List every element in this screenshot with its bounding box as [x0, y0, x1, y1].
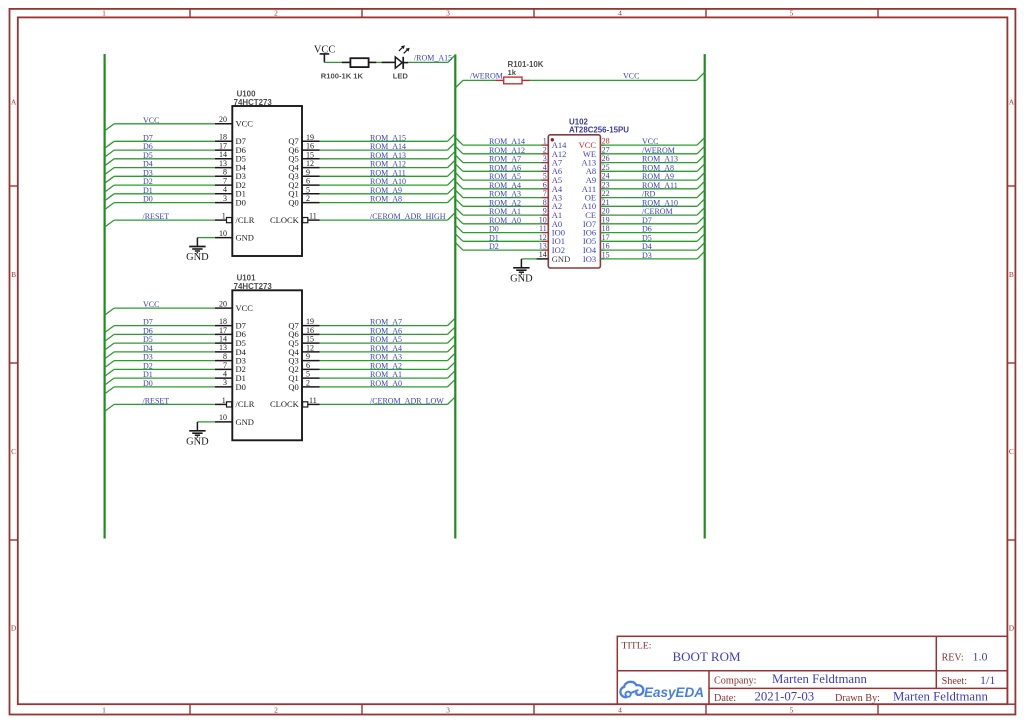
net label /WEROM (U102 right): [642, 146, 675, 155]
right border zone ticks: [1007, 186, 1015, 540]
wire D0 to U101: [105, 387, 215, 394]
label LED: [393, 71, 409, 80]
svg-text:VCC: VCC: [236, 303, 254, 313]
LED LED1: [382, 45, 410, 69]
svg-text:ROM_A10: ROM_A10: [370, 177, 406, 186]
svg-text:20: 20: [219, 115, 227, 124]
wire U102 pin 20 to right bus: [600, 208, 704, 216]
svg-text:5: 5: [306, 185, 310, 194]
date label Date:: [714, 693, 736, 704]
svg-text:ROM_A0: ROM_A0: [370, 379, 402, 388]
U101 pin 5 Q1: [288, 370, 319, 383]
sheet value 1/1: [980, 673, 995, 687]
wire R101 to right bus: [530, 72, 705, 80]
svg-text:13: 13: [219, 159, 227, 168]
top border zone ticks: [190, 9, 878, 17]
label U102: [569, 118, 588, 127]
net label D1 (U101): [143, 370, 153, 379]
U101 pin 13 D4: [215, 343, 247, 357]
svg-text:ROM_A0: ROM_A0: [489, 216, 521, 225]
svg-text:GND: GND: [510, 274, 533, 285]
wire D2 to U102 pin 13: [455, 243, 542, 251]
U102 pin 23 A11: [582, 180, 610, 193]
wire Q5 to middle bus (U101): [320, 336, 456, 344]
wire Q0 to middle bus (U101): [320, 379, 456, 387]
svg-text:GND: GND: [552, 254, 570, 264]
svg-text:ROM_A6: ROM_A6: [370, 326, 402, 335]
svg-text:26: 26: [602, 154, 610, 163]
svg-text:D1: D1: [143, 370, 153, 379]
svg-text:3: 3: [446, 9, 450, 18]
wire ROM_A12 to U102 pin 2: [455, 146, 542, 154]
svg-text:D0: D0: [143, 379, 153, 388]
svg-text:D0: D0: [236, 198, 246, 208]
svg-text:Date:: Date:: [714, 693, 736, 704]
svg-text:D3: D3: [642, 251, 652, 260]
svg-text:ROM_A4: ROM_A4: [370, 344, 402, 353]
net label VCC (U100): [143, 116, 159, 125]
net label D2 (U102): [489, 242, 499, 251]
svg-text:ROM_A8: ROM_A8: [370, 195, 402, 204]
svg-text:D0: D0: [143, 195, 153, 204]
svg-text:BOOT ROM: BOOT ROM: [673, 649, 741, 664]
svg-text:VCC: VCC: [642, 137, 658, 146]
svg-text:1: 1: [543, 137, 547, 146]
svg-text:D6: D6: [642, 225, 652, 234]
net label ROM_A7 (U102): [489, 155, 521, 164]
net label ROM_A12: [370, 160, 406, 169]
svg-text:6: 6: [306, 177, 310, 186]
net label ROM_A2: [370, 361, 402, 370]
svg-text:D1: D1: [489, 233, 499, 242]
wire Q7 to middle bus (U100): [320, 134, 456, 142]
svg-text:2: 2: [306, 194, 310, 203]
svg-text:9: 9: [306, 352, 310, 361]
net label ROM_A1 (U102): [489, 207, 521, 216]
net label D4 (U101): [143, 344, 153, 353]
net label ROM_A4: [370, 344, 402, 353]
net label D0 (U102): [489, 225, 499, 234]
U100 pin 10 GND: [215, 229, 254, 243]
U102 pin 26 A13: [581, 154, 609, 167]
svg-text:/ROM_A15: /ROM_A15: [414, 53, 452, 62]
net label ROM_A13 (U102 right): [642, 155, 678, 164]
net label ROM_A5: [370, 335, 402, 344]
svg-text:15: 15: [602, 251, 610, 260]
rev value 1.0: [973, 650, 988, 664]
EasyEDA logo: [620, 682, 704, 700]
svg-text:9: 9: [543, 207, 547, 216]
wire U102 pin 21 to right bus: [600, 199, 704, 207]
svg-text:1: 1: [222, 212, 226, 221]
svg-text:3: 3: [543, 154, 547, 163]
svg-text:1: 1: [102, 706, 106, 715]
svg-text:ROM_A11: ROM_A11: [642, 181, 678, 190]
ground symbol (U102): [510, 259, 533, 285]
U101 pin 6 Q2: [288, 361, 319, 374]
net label ROM_A3 (U102): [489, 190, 521, 199]
net label ROM_A6: [370, 326, 402, 335]
svg-text:11: 11: [309, 212, 317, 221]
label 74HCT273 (U101): [234, 282, 273, 291]
label 74HCT273 (U100): [234, 98, 273, 107]
net label D3 (U101): [143, 353, 153, 362]
svg-text:Sheet:: Sheet:: [942, 676, 967, 687]
svg-text:D6: D6: [143, 326, 153, 335]
svg-text:D3: D3: [143, 353, 153, 362]
wire U102 pin 24 to right bus: [600, 173, 704, 181]
U100 pin 9 Q3: [288, 168, 319, 181]
net label D7 (U100): [143, 133, 153, 142]
company value Marten Feldtmann: [772, 672, 867, 686]
svg-text:27: 27: [602, 145, 610, 154]
wire Q5 to middle bus (U100): [320, 151, 456, 159]
bottom border zone ticks: [190, 704, 878, 714]
svg-text:IO3: IO3: [583, 254, 596, 264]
right zone labels A-D: [1009, 97, 1015, 632]
wire U102 pin 15 to right bus: [600, 251, 704, 259]
net label /ROM_A15: [414, 53, 452, 62]
svg-text:ROM_A15: ROM_A15: [370, 133, 406, 142]
wire Q6 to middle bus (U101): [320, 327, 456, 335]
wire ROM_A3 to U102 pin 7: [455, 190, 542, 198]
inner-to-outer border connector: [1007, 703, 1015, 705]
svg-text:4: 4: [543, 163, 547, 172]
U100 pin 13 D4: [215, 159, 247, 173]
svg-text:2: 2: [274, 9, 278, 18]
wire D7 to U101: [105, 326, 215, 333]
svg-text:ROM_A3: ROM_A3: [489, 190, 521, 199]
svg-text:ROM_A7: ROM_A7: [489, 155, 521, 164]
U102 pin 3 A7: [541, 154, 562, 167]
net label /RESET (U100): [143, 212, 170, 221]
U102 pin 9 A1: [541, 207, 562, 220]
svg-text:ROM_A13: ROM_A13: [370, 151, 406, 160]
ground symbol (U101): [186, 422, 209, 448]
net label ROM_A4 (U102): [489, 181, 521, 190]
top zone labels 1-5: [102, 9, 794, 18]
IC U102 AT28C256-15PU body: [548, 135, 600, 268]
U100 pin 20 VCC: [215, 115, 254, 129]
svg-text:D4: D4: [143, 160, 153, 169]
svg-text:19: 19: [306, 317, 314, 326]
U102 pin 12 IO1: [539, 233, 565, 246]
svg-text:ROM_A2: ROM_A2: [489, 198, 521, 207]
U101 pin 19 Q7: [288, 317, 319, 330]
svg-text:C: C: [11, 447, 16, 456]
svg-text:ROM_A12: ROM_A12: [370, 160, 406, 169]
svg-text:9: 9: [306, 168, 310, 177]
svg-text:8: 8: [543, 198, 547, 207]
svg-text:ROM_A4: ROM_A4: [489, 181, 521, 190]
svg-text:12: 12: [306, 159, 314, 168]
wire Q4 to middle bus (U100): [320, 160, 456, 168]
svg-text:/WEROM: /WEROM: [642, 146, 675, 155]
svg-text:10: 10: [219, 413, 227, 422]
svg-text:18: 18: [602, 224, 610, 233]
title block row divider 1: [617, 670, 1007, 672]
svg-text:4: 4: [618, 9, 622, 18]
svg-text:Company:: Company:: [714, 676, 756, 687]
wire Q2 to middle bus (U101): [320, 362, 456, 370]
net label ROM_A1: [370, 370, 402, 379]
svg-text:ROM_A12: ROM_A12: [489, 146, 525, 155]
net label D7 (U102 right): [642, 216, 652, 225]
U101 pin 8 D3: [215, 352, 246, 366]
wire ROM_A2 to U102 pin 8: [455, 199, 542, 207]
wire ROM_A6 to U102 pin 4: [455, 164, 542, 172]
net label D2 (U101): [143, 361, 153, 370]
left vertical bus wire: [103, 54, 105, 539]
wire Q2 to middle bus (U100): [320, 178, 456, 186]
wire Q4 to middle bus (U101): [320, 344, 456, 352]
U100 pin 8 D3: [215, 168, 246, 182]
svg-text:VCC: VCC: [143, 300, 159, 309]
wire U102 pin 26 to right bus: [600, 155, 704, 163]
svg-text:14: 14: [219, 150, 227, 159]
U101 pin 16 Q6: [288, 326, 319, 339]
wire D1 to U100: [105, 194, 215, 201]
svg-text:20: 20: [219, 300, 227, 309]
svg-text:ROM_A1: ROM_A1: [489, 207, 521, 216]
svg-text:1.0: 1.0: [973, 650, 988, 664]
drawn-by label Drawn By:: [835, 693, 880, 704]
U101 pin 3 D0: [215, 378, 246, 392]
right vertical bus wire: [704, 54, 706, 538]
svg-text:ROM_A5: ROM_A5: [489, 172, 521, 181]
svg-text:A: A: [1009, 97, 1015, 106]
U101 pin 1 /CLR: [215, 396, 255, 409]
U102 pin 1 marker: [551, 138, 554, 141]
svg-text:17: 17: [219, 326, 227, 335]
svg-text:4: 4: [223, 370, 227, 379]
wire D1 to U102 pin 12: [455, 234, 542, 242]
svg-text:3: 3: [446, 706, 450, 715]
U101 pin 15 Q5: [288, 335, 319, 348]
U101 pin 11 CLOCK: [270, 396, 320, 409]
svg-text:EasyEDA: EasyEDA: [644, 685, 704, 700]
label U101: [237, 274, 256, 283]
U101 pin 2 Q0: [288, 379, 319, 392]
middle vertical bus wire: [454, 54, 456, 538]
wire R100 to LED: [376, 61, 382, 63]
net label ROM_A0: [370, 379, 402, 388]
svg-text:16: 16: [306, 326, 314, 335]
U102 pin 24 A9: [586, 172, 610, 185]
svg-text:D0: D0: [489, 225, 499, 234]
U100 pin 16 Q6: [288, 142, 319, 155]
wire D0 to U102 pin 11: [455, 225, 542, 233]
U100 pin 7 D2: [215, 177, 246, 191]
ground symbol (U100): [186, 238, 209, 264]
wire U102 pin 28 to right bus: [600, 138, 704, 146]
wire D0 to U100: [105, 203, 215, 210]
wire LED to middle bus: [408, 55, 455, 63]
U102 pin 14 GND: [536, 250, 570, 264]
net label ROM_A12 (U102): [489, 146, 525, 155]
wire middle bus to R101: [455, 80, 496, 88]
U102 pin 1 A14: [541, 137, 567, 150]
svg-text:/CEROM_ADR_LOW: /CEROM_ADR_LOW: [370, 396, 444, 405]
company label: [714, 676, 756, 687]
svg-text:6: 6: [543, 180, 547, 189]
wire Q0 to middle bus (U100): [320, 195, 456, 203]
svg-text:4: 4: [223, 185, 227, 194]
net label /RESET (U101): [143, 396, 170, 405]
svg-text:GND: GND: [236, 417, 254, 427]
svg-text:28: 28: [602, 137, 610, 146]
svg-text:24: 24: [602, 172, 610, 181]
svg-text:16: 16: [602, 242, 610, 251]
U102 pin 16 IO4: [583, 242, 610, 255]
U101 pin 9 Q3: [288, 352, 319, 365]
svg-text:10: 10: [539, 215, 547, 224]
wire ROM_A0 to U102 pin 10: [455, 216, 542, 224]
net label /CEROM_ADR_LOW: [370, 396, 444, 405]
wire Q3 to middle bus (U100): [320, 169, 456, 177]
svg-text:D7: D7: [642, 216, 652, 225]
svg-text:25: 25: [602, 163, 610, 172]
U102 pin 27 WE: [583, 145, 610, 158]
svg-text:20: 20: [602, 207, 610, 216]
svg-text:D5: D5: [642, 233, 652, 242]
net label D6 (U100): [143, 142, 153, 151]
U102 pin 28 VCC: [579, 137, 610, 150]
U100 pin 19 Q7: [288, 133, 319, 146]
net label ROM_A14 (U102): [489, 137, 525, 146]
net label VCC (pullup): [623, 71, 639, 80]
wire Q1 to middle bus (U101): [320, 371, 456, 379]
svg-text:D5: D5: [143, 335, 153, 344]
U100 pin 14 D5: [215, 150, 246, 164]
svg-text:ROM_A9: ROM_A9: [642, 172, 674, 181]
net label ROM_A9: [370, 186, 402, 195]
net label D5 (U102 right): [642, 233, 652, 242]
wire U102 pin 27 to right bus: [600, 146, 704, 154]
svg-text:Q0: Q0: [288, 382, 298, 392]
svg-text:D5: D5: [143, 151, 153, 160]
title value BOOT ROM: [673, 649, 741, 664]
title block outline: [617, 636, 1007, 704]
svg-text:GND: GND: [186, 252, 209, 263]
net label VCC (U101): [143, 300, 159, 309]
wire D6 to U101: [105, 334, 215, 341]
svg-text:11: 11: [539, 224, 547, 233]
title block rev column divider: [935, 636, 937, 688]
svg-text:8: 8: [223, 352, 227, 361]
svg-text:D6: D6: [143, 142, 153, 151]
svg-text:D4: D4: [642, 242, 652, 251]
svg-text:R100-1K 1K: R100-1K 1K: [321, 71, 364, 80]
wire /RESET to U100: [105, 220, 215, 227]
svg-text:Q0: Q0: [288, 198, 298, 208]
svg-text:7: 7: [543, 189, 547, 198]
wire D6 to U100: [105, 150, 215, 157]
net label /CEROM_ADR_HIGH: [370, 212, 446, 221]
wire D4 to U101: [105, 352, 215, 359]
svg-text:5: 5: [790, 706, 794, 715]
U102 pin 6 A4: [541, 180, 563, 193]
U100 pin 15 Q5: [288, 150, 319, 163]
net label ROM_A5 (U102): [489, 172, 521, 181]
svg-text:ROM_A7: ROM_A7: [370, 318, 402, 327]
wire Q7 to middle bus (U101): [320, 318, 456, 326]
svg-text:AT28C256-15PU: AT28C256-15PU: [569, 125, 629, 134]
resistor R100: [342, 58, 377, 67]
wire U102 pin 16 to right bus: [600, 243, 704, 251]
sheet label Sheet:: [942, 676, 967, 687]
svg-text:22: 22: [602, 189, 610, 198]
svg-text:15: 15: [306, 150, 314, 159]
net label D4 (U100): [143, 160, 153, 169]
wire U101 pin 10 to ground: [197, 421, 214, 423]
svg-text:3: 3: [223, 378, 227, 387]
U100 pin 4 D1: [215, 185, 246, 199]
svg-text:2021-07-03: 2021-07-03: [755, 690, 815, 704]
svg-text:/RESET: /RESET: [143, 396, 170, 405]
svg-text:ROM_A14: ROM_A14: [489, 137, 525, 146]
U102 pin 8 A2: [541, 198, 562, 211]
net label ROM_A15: [370, 133, 406, 142]
left zone labels A-D: [11, 97, 17, 632]
svg-text:5: 5: [306, 370, 310, 379]
net label ROM_A10: [370, 177, 406, 186]
svg-text:16: 16: [306, 142, 314, 151]
U101 pin 18 D7: [215, 317, 246, 331]
wire CLOCK to middle bus (U101): [320, 397, 456, 405]
wire VCC to R100: [324, 61, 342, 63]
U100 pin 11 CLOCK: [270, 212, 320, 225]
net label D3 (U102 right): [642, 251, 652, 260]
wire ROM_A14 to U102 pin 1: [455, 138, 542, 146]
U101 pin 14 D5: [215, 335, 246, 349]
rev label REV:: [942, 652, 964, 663]
IC U101 74HCT273 body: [232, 290, 302, 440]
svg-text:D: D: [11, 624, 17, 633]
label AT28C256-15PU: [569, 125, 629, 134]
net label D6 (U101): [143, 326, 153, 335]
title block row divider 2: [709, 687, 1007, 689]
wire Q1 to middle bus (U100): [320, 186, 456, 194]
U100 pin 18 D7: [215, 133, 246, 147]
svg-text:/CEROM: /CEROM: [642, 207, 673, 216]
wire U102 pin 19 to right bus: [600, 216, 704, 224]
svg-text:D7: D7: [143, 133, 153, 142]
U101 pin 12 Q4: [288, 344, 319, 357]
U102 pin 5 A5: [541, 172, 562, 185]
wire D2 to U100: [105, 185, 215, 192]
wire U102 pin 25 to right bus: [600, 164, 704, 172]
U102 pin 2 A12: [541, 145, 566, 158]
svg-text:D3: D3: [143, 168, 153, 177]
svg-text:ROM_A8: ROM_A8: [642, 163, 674, 172]
svg-text:GND: GND: [186, 437, 209, 448]
svg-text:B: B: [1009, 270, 1014, 279]
U101 pin 20 VCC: [215, 300, 254, 314]
svg-text:6: 6: [306, 361, 310, 370]
wire CLOCK to middle bus (U100): [320, 213, 456, 221]
wire D2 to U101: [105, 369, 215, 376]
svg-text:23: 23: [602, 180, 610, 189]
svg-text:CLOCK: CLOCK: [270, 215, 300, 225]
U102 pin 15 IO3: [583, 251, 610, 264]
net label ROM_A2 (U102): [489, 198, 521, 207]
svg-text:ROM_A14: ROM_A14: [370, 142, 406, 151]
label R101-10K: [508, 60, 544, 69]
svg-text:1/1: 1/1: [980, 673, 995, 687]
svg-text:GND: GND: [236, 233, 254, 243]
svg-text:2: 2: [306, 379, 310, 388]
